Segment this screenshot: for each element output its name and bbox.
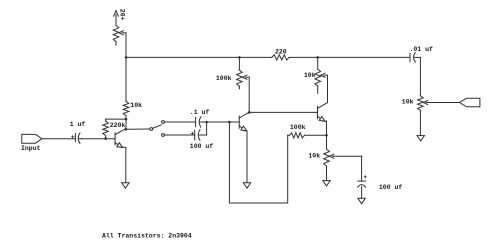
- wire caps to Q2 base: [207, 121, 240, 123]
- wire C5 to R8: [419, 57, 421, 95]
- top rail right segment: [289, 56, 410, 58]
- svg-text:100 uf: 100 uf: [190, 143, 214, 150]
- potentiometer R3 100k: [238, 57, 240, 70]
- wire R7 wiper to C4: [334, 155, 362, 157]
- wire node A to 220k: [106, 118, 126, 120]
- ground R7: [323, 181, 330, 186]
- node rail 10k: [316, 56, 319, 59]
- svg-text:Input: Input: [21, 145, 41, 152]
- wire Q2 emitter down: [244, 131, 247, 183]
- resistor R2 10k: [123, 101, 129, 115]
- wire Q3 emitter down: [322, 121, 326, 135]
- power supply arrow +20V: [114, 11, 119, 17]
- svg-text:.01 uf: .01 uf: [410, 46, 434, 53]
- wire R8 wiper to output: [427, 102, 459, 104]
- wire C1 to Q1 base: [82, 138, 116, 140]
- node caps join: [205, 121, 208, 124]
- wire Q2 collector to Q3 base: [249, 111, 317, 113]
- svg-text:100 uf: 100 uf: [379, 184, 403, 191]
- wire Q2 collector up: [248, 77, 250, 112]
- svg-text:+: +: [363, 174, 367, 181]
- switch throw bottom: [162, 134, 165, 137]
- svg-text:20+: 20+: [119, 9, 126, 21]
- svg-text:220k: 220k: [110, 122, 126, 129]
- wire Q1 emitter down: [120, 147, 126, 183]
- wire throw top to C2: [164, 121, 195, 123]
- transistor Q3 2n3904: [317, 106, 319, 118]
- svg-text:All Transistors: 2n3904: All Transistors: 2n3904: [102, 232, 192, 239]
- ground C4: [358, 198, 365, 203]
- capacitor C5 .01 uf: [409, 53, 411, 62]
- svg-text:100k: 100k: [216, 75, 232, 82]
- capacitor C2 .1 uf: [195, 117, 197, 126]
- potentiometer R8 10k: [418, 96, 424, 111]
- svg-text:10k: 10k: [402, 98, 414, 105]
- resistor R6 100k: [288, 134, 290, 136]
- svg-text:1 uf: 1 uf: [70, 121, 86, 128]
- wire feedback route: [229, 122, 287, 203]
- svg-text:10k: 10k: [304, 72, 316, 79]
- svg-text:10k: 10k: [308, 153, 320, 160]
- svg-text:10k: 10k: [130, 102, 142, 109]
- node Q2 base branch: [228, 121, 231, 124]
- svg-text:100k: 100k: [290, 124, 306, 131]
- top rail left segment: [126, 56, 272, 58]
- wire throw bottom to C3: [164, 134, 194, 136]
- node A 220k/10k junction: [125, 118, 128, 121]
- resistor R1 220k: [105, 119, 107, 121]
- transistor Q2 2n3904: [238, 116, 240, 128]
- potentiometer R5 10k: [317, 57, 319, 69]
- node Q2 collector: [248, 111, 251, 114]
- ground R8: [417, 136, 424, 141]
- svg-text:+: +: [71, 134, 75, 141]
- node Q3 emitter: [325, 134, 328, 137]
- node Q1 base: [104, 137, 107, 140]
- switch pole: [150, 128, 153, 131]
- wire input to C1: [42, 138, 75, 140]
- wire C3 up to C2 node: [206, 122, 208, 135]
- ground Q1: [122, 183, 129, 188]
- switch lever: [153, 125, 162, 128]
- ground Q2: [243, 183, 250, 188]
- wire R5 wiper to Q3 collector: [327, 75, 329, 102]
- switch throw top: [162, 121, 165, 124]
- output connector: [459, 98, 480, 107]
- input connector: [22, 134, 42, 143]
- wire rail to 10k R2: [125, 57, 127, 101]
- potentiometer R7 10k: [326, 135, 328, 149]
- svg-text:.1 uf: .1 uf: [190, 109, 210, 116]
- transistor Q1 2n3904: [114, 133, 116, 145]
- wire Q1 collector to switch: [126, 128, 150, 130]
- resistor R4 220: [272, 55, 289, 60]
- node Q1 collector: [125, 128, 128, 131]
- node rail 100k: [238, 56, 241, 59]
- supply trimpot: [113, 26, 119, 42]
- node rail-left: [125, 56, 128, 59]
- wire node A to collector node: [125, 119, 127, 129]
- svg-text:+: +: [190, 130, 194, 137]
- svg-text:220: 220: [275, 49, 287, 56]
